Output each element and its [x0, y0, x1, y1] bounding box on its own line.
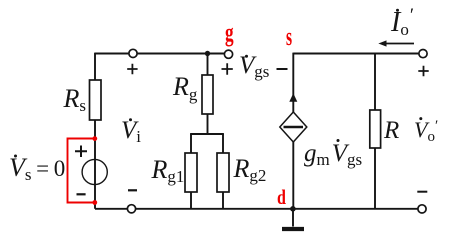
resistor Rg2: [217, 153, 229, 192]
label Vs = 0: [9, 155, 65, 181]
minus sign inside source box: [77, 193, 86, 195]
terminal circle output top: [419, 50, 427, 58]
plus sign left of Vgs: [222, 63, 233, 74]
label Vgs: [239, 53, 269, 78]
dependent source G1 inner bar: [284, 126, 304, 128]
resistor Rs: [90, 80, 102, 120]
wire top-left segment from source branch to input terminal: [95, 53, 129, 55]
node label d: [277, 187, 286, 208]
node label s: [286, 24, 292, 50]
dependent source G1 arrowhead (current direction up): [289, 93, 297, 102]
label R: [384, 118, 399, 143]
label Vo': [414, 119, 438, 141]
wire R branch vertical: [374, 54, 376, 209]
wire top-right from node s to output terminal: [293, 53, 418, 55]
wire Rg2 vertical: [222, 134, 224, 209]
red node dot bottom of source box: [92, 200, 97, 205]
resistor R: [370, 110, 381, 148]
voltage source Vs circle: [82, 159, 107, 184]
overdot of Vo': [419, 117, 422, 120]
red highlight box around source: [68, 139, 96, 203]
plus sign at output terminal: [418, 66, 428, 76]
resistor Rg1: [185, 153, 197, 192]
wire bottom rail from terminal to output: [136, 208, 418, 210]
wire bottom rail left of terminal: [95, 208, 127, 210]
resistor Rg: [202, 75, 213, 114]
plus sign at input terminal: [127, 64, 137, 74]
node label g: [225, 20, 234, 46]
overdot of gmVgs: [337, 139, 340, 142]
ground bar: [282, 227, 304, 231]
junction dot at Rg top: [205, 51, 210, 56]
wire s branch vertical through dependent source: [292, 53, 294, 209]
label Vi: [121, 118, 141, 143]
label gmVgs: [304, 141, 362, 166]
red node dot top of source box: [92, 136, 97, 141]
plus sign inside source box: [75, 146, 87, 158]
junction dot node d: [290, 206, 296, 212]
overdot of Io': [396, 9, 399, 12]
minus sign right of Vgs: [277, 68, 288, 70]
label Rg: [173, 74, 197, 100]
wire Rg1 vertical: [190, 134, 192, 209]
overdot of Vs: [14, 155, 17, 158]
terminal circle node g: [224, 50, 232, 58]
dependent source G1 diamond: [280, 112, 307, 142]
label Rg1: [152, 157, 185, 183]
terminal circle input top: [129, 49, 137, 57]
wire left vertical branch (source + Rs): [94, 53, 96, 209]
minus sign below Vi: [128, 189, 137, 191]
terminal circle input bottom: [127, 205, 135, 213]
current Io' arrow: [385, 43, 414, 45]
overdot of Vgs: [245, 55, 248, 58]
overdot of Vi: [129, 118, 132, 121]
label Rg2: [234, 156, 267, 182]
terminal circle output bottom: [418, 205, 426, 213]
label Rs: [64, 86, 87, 112]
ground stub wire: [292, 209, 294, 227]
wire from input terminal to node g: [137, 53, 224, 55]
label Io': [391, 9, 414, 37]
minus sign at output bottom: [417, 191, 427, 193]
wire Rg1-Rg2 split bar: [190, 133, 224, 135]
wire Rg branch vertical: [207, 54, 209, 135]
